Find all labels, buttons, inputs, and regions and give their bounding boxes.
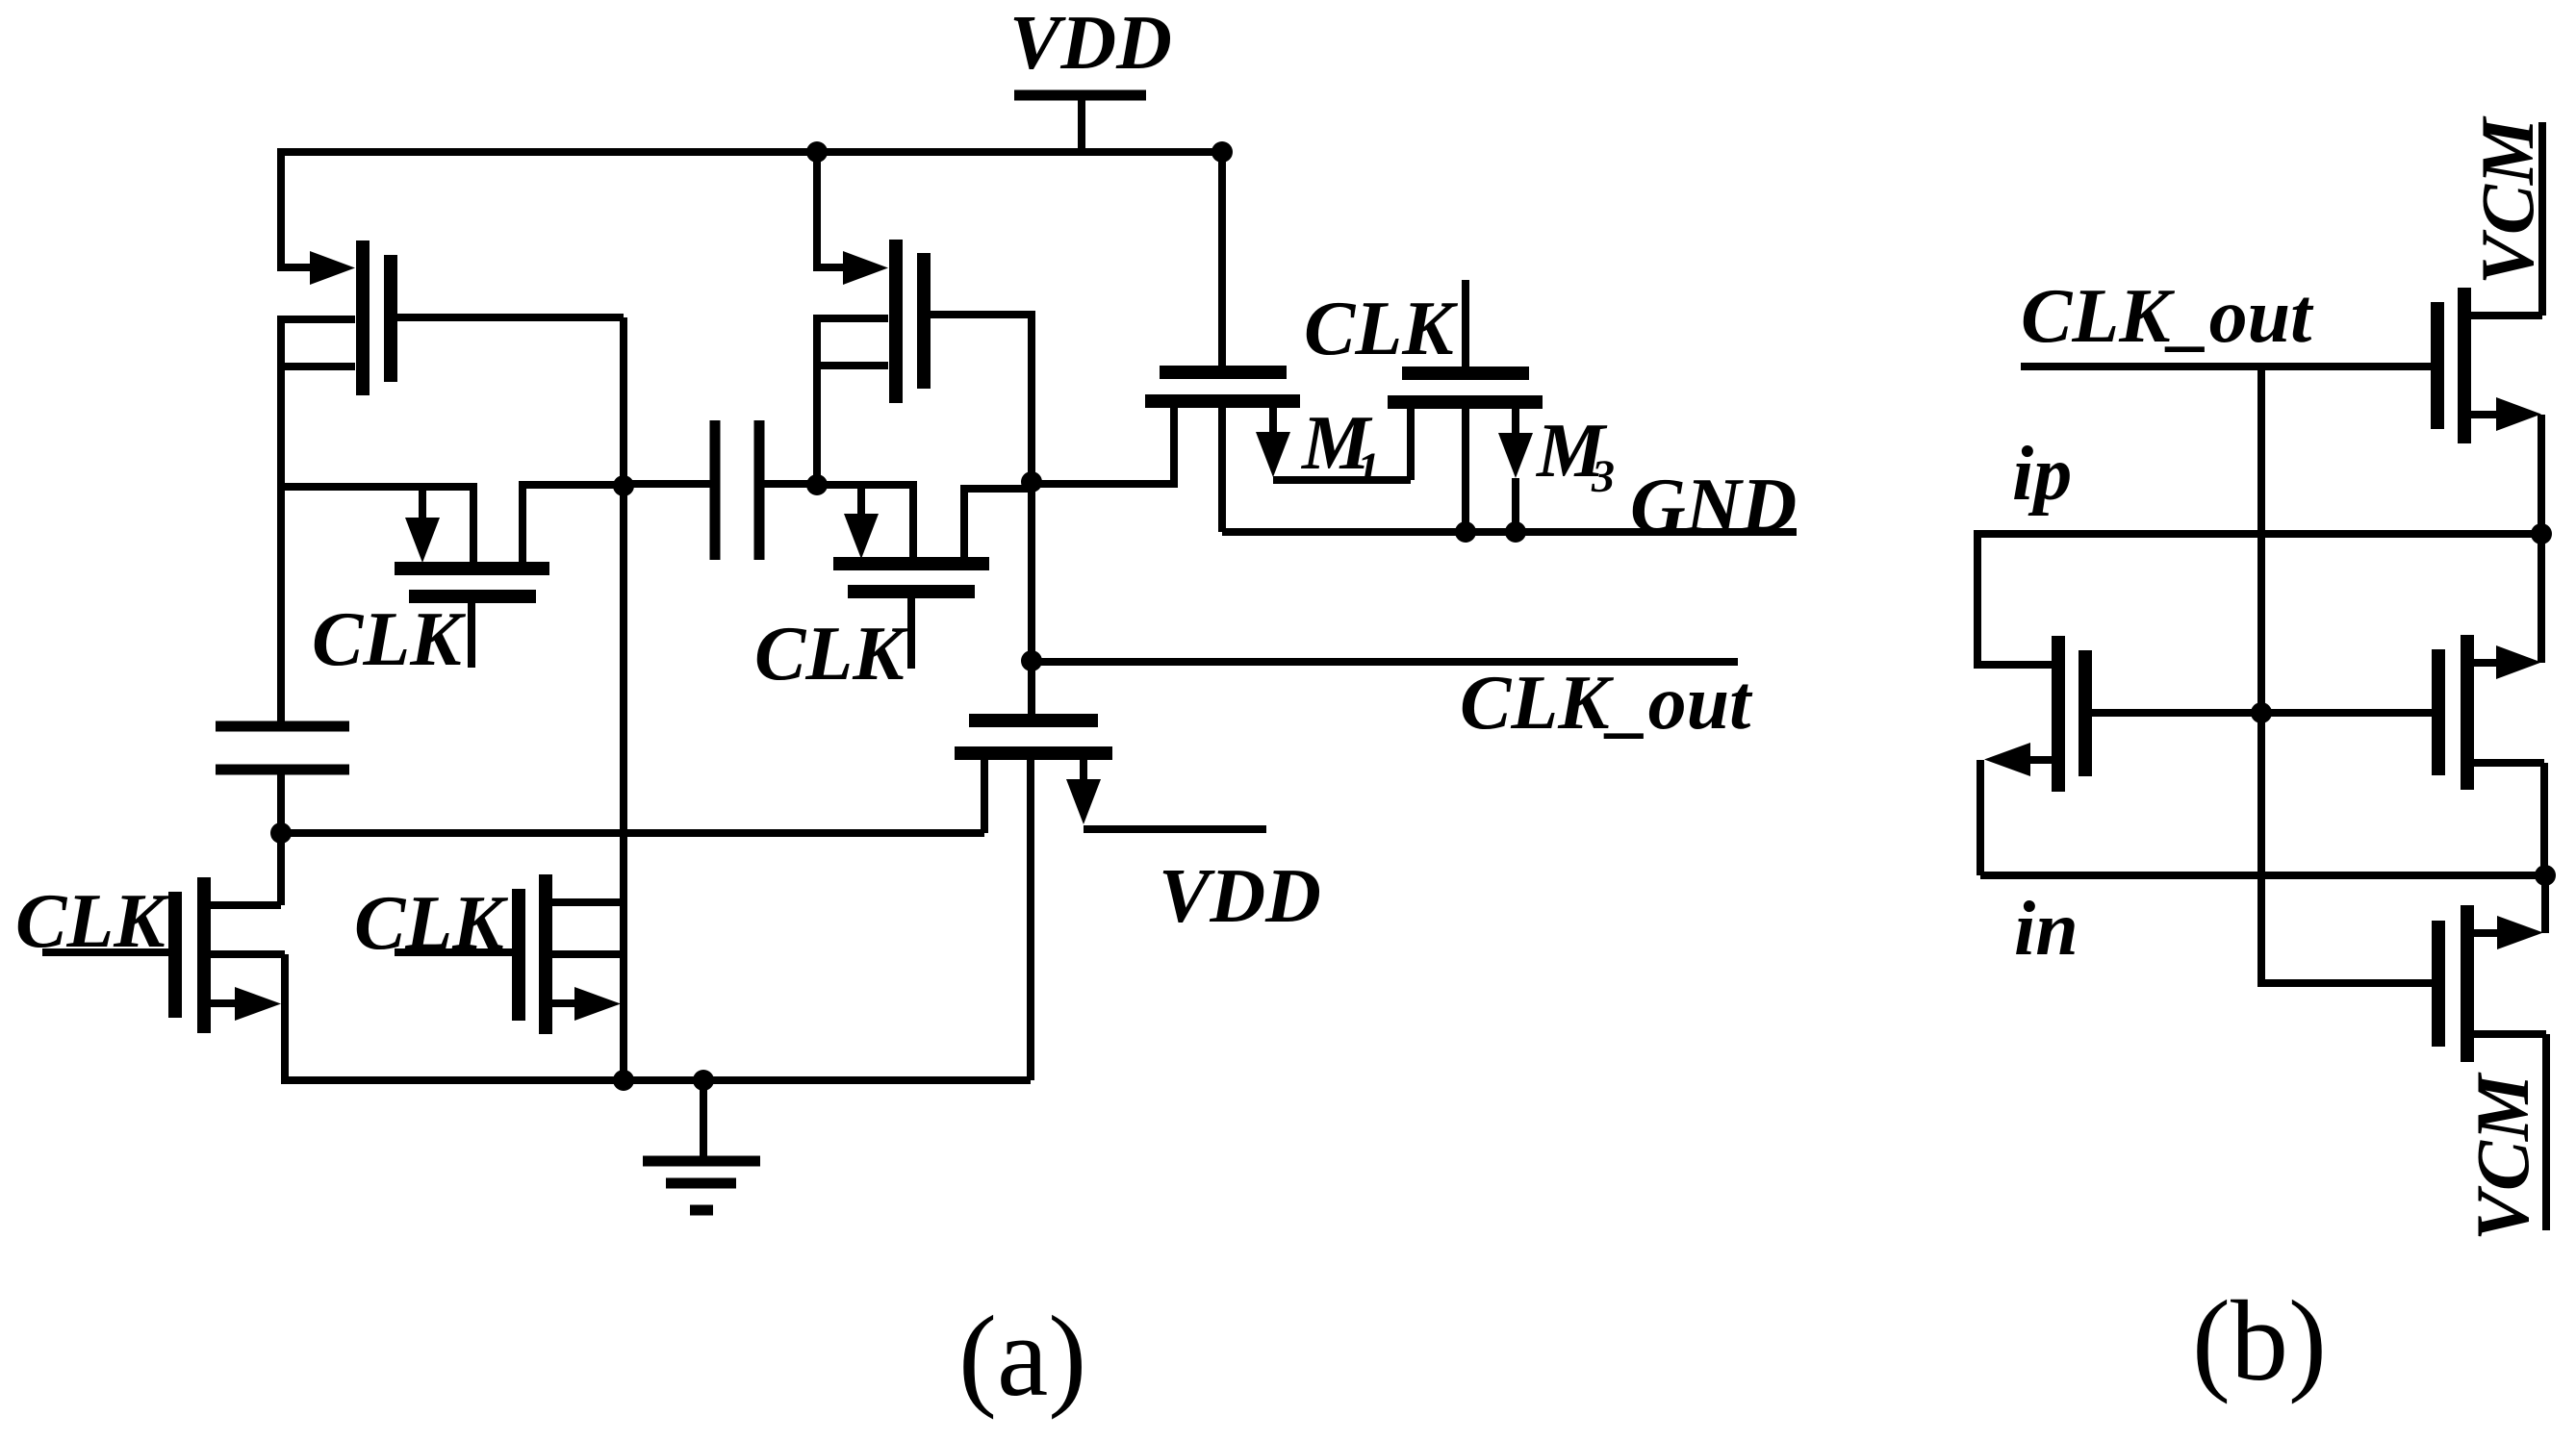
label CLK_out [1460,661,1753,746]
wire: rail to P2 source [817,152,844,267]
wire: N4 drain down to rail [281,954,289,1084]
wire: left node to N1 [281,487,473,563]
svg-text:ip: ip [2012,432,2072,517]
transistor M3 [1388,373,1543,532]
wire: P2 gate lead [930,315,1032,720]
wire: ip line [1977,530,2541,538]
label VCM (bottom) [2461,1072,2544,1241]
transistor P2 (top-middle PMOS) [813,240,924,403]
wire: GND rail [1222,528,1797,536]
wire: main left-middle vertical [620,317,627,1078]
svg-text:in: in [2014,887,2079,972]
caption (a) [958,1292,1086,1420]
svg-text:VDD: VDD [1159,854,1321,939]
wire: C2 left plate to node [624,480,710,488]
label VCM (top) [2465,115,2549,285]
transistor P1 (top-left PMOS) [277,240,391,395]
node: center vertical dot [2251,702,2272,723]
capacitor C1 (left, vertical) [216,726,349,770]
transistor N2 (CLK NMOS under P2) [833,485,989,669]
node: GND dot 1 [1455,521,1476,543]
node: GND dot 2 [1505,521,1526,543]
wire: CLK_out line [1032,658,1738,666]
svg-text:CLK: CLK [1304,287,1458,371]
svg-text:GND: GND [1630,464,1797,548]
transistor T2 (middle-right) [2438,635,2544,790]
svg-text:(b): (b) [2192,1277,2327,1404]
label CLK (N5 input) [354,881,508,966]
label VDD (middle terminal) [1159,854,1321,939]
transistor N5 (bottom-middle CLK NMOS) [519,874,624,1034]
node: in junction dot [2535,865,2556,886]
transistor N3 (output NMOS to VDD) [955,720,1112,1080]
node: ground dot [693,1070,714,1091]
label M1 [1300,401,1380,494]
wire: in line [1980,872,2545,879]
node: rail junction A [806,141,828,163]
capacitor C2 (middle, horizontal) [715,420,759,560]
wire: VCM terminal top [2538,122,2546,316]
wire: in node down to T4 drain [2541,875,2549,933]
ground [643,1080,760,1210]
svg-text:VCM: VCM [2465,115,2549,285]
wire: node to N2 [817,485,913,564]
transistor N4 (bottom-left CLK NMOS) [175,877,285,1033]
node: ip junction dot [2531,523,2552,544]
svg-text:CLK_out: CLK_out [2021,274,2314,359]
label VDD (top supply) [1009,1,1172,86]
transistor T3 (left of b) [1984,636,2085,792]
svg-text:CLK_out: CLK_out [1460,661,1753,746]
wire: CLK underline to N5 gate [395,948,513,956]
label CLK (N2 gate) [754,612,908,696]
wire: VDD stem [1078,95,1085,152]
wire: bottom rail [285,1076,1031,1084]
label CLK_out (b input) [2021,274,2314,359]
wire: CLK_out center vertical [2261,367,2433,983]
wire: M1 gate lead from rail [1218,152,1226,367]
VDD supply symbol bar [1014,90,1146,101]
label in [2014,887,2079,972]
caption (b) [2192,1277,2327,1404]
wire: T2 source down to in node [2540,763,2548,875]
svg-text:VCM: VCM [2461,1072,2544,1241]
transistor T4 (bottom-right) [2438,905,2546,1062]
wire: CLK underline to N4 gate [42,948,169,956]
node: boosted node dot [1021,471,1042,493]
label CLK (M3 gate) [1304,287,1458,371]
wire: VCM terminal bottom [2542,1034,2550,1230]
node: cap-right dot [806,474,828,495]
transistor T1 (top-right) [2437,288,2542,443]
node: rail junction B [1211,141,1233,163]
node: cap-left dot [613,475,634,496]
wire: ip left drop to T3 source [1977,530,2052,665]
svg-text:3: 3 [1591,451,1615,502]
transistor M1 [1145,372,1300,532]
wire: T1 drain down to ip node [2538,415,2545,663]
wire: left node to N3 source stub [281,829,984,837]
wire: boosted node to M1 source [964,405,1174,564]
wire: P1 gate lead [396,314,624,321]
svg-text:(a): (a) [958,1292,1086,1420]
wire: top VDD rail [281,148,1222,156]
wire: N3 drain to VDD terminal [1084,825,1266,833]
node: bottom rail dot left [613,1070,634,1091]
node: CLK_out junction dot [1021,650,1042,671]
wire: left column vertical [277,316,285,726]
wire: C1 bottom to node [277,770,285,905]
wire: P2 stubs down to node [813,315,821,486]
wire: T3 gate lead to center node [2091,709,2433,717]
svg-text:VDD: VDD [1009,1,1172,86]
wire: CLK_out lead to T1 gate [2021,363,2431,370]
wire: M3 gate lead [1462,280,1469,367]
label M3 [1535,409,1615,502]
wire: T3 drain down to in line [1977,760,1984,875]
label GND [1630,464,1797,548]
label ip [2012,432,2072,517]
svg-text:CLK: CLK [312,597,466,682]
label CLK (N4 input) [15,879,169,964]
wire: rail to P1 source [281,148,318,267]
svg-text:CLK: CLK [754,612,908,696]
label CLK (N1 gate) [312,597,466,682]
svg-text:1: 1 [1357,443,1380,494]
transistor N1 (CLK NMOS under P1) [395,485,624,668]
wire: M1 drain to M3 source [1273,476,1411,484]
wire: node to C2 right plate [764,480,817,488]
node: left node dot [270,822,292,844]
